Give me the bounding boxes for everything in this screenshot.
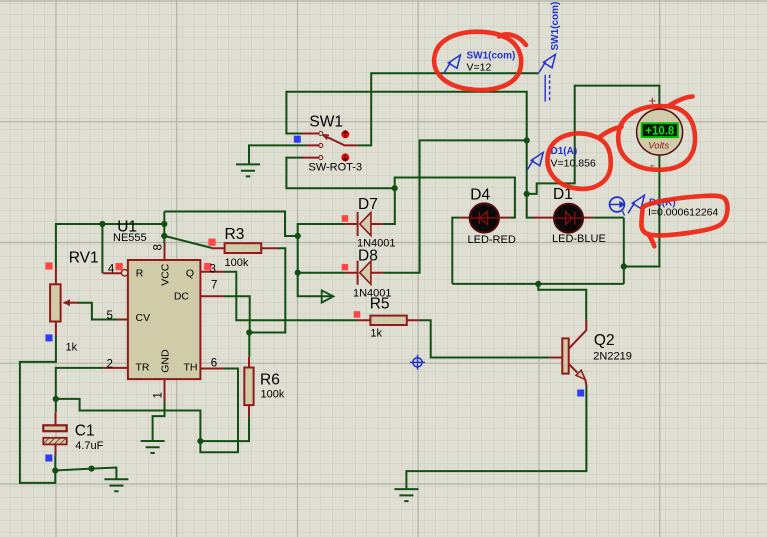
svg-text:2N2219: 2N2219 (593, 350, 632, 362)
svg-text:5: 5 (106, 310, 112, 322)
svg-text:R3: R3 (225, 226, 245, 243)
svg-text:V=12: V=12 (467, 62, 492, 74)
svg-text:D8: D8 (358, 248, 378, 265)
svg-text:3: 3 (210, 263, 216, 275)
svg-text:SW1(com): SW1(com) (467, 51, 516, 62)
svg-text:VCC: VCC (159, 263, 171, 286)
svg-text:100k: 100k (225, 257, 249, 269)
svg-text:4: 4 (108, 263, 115, 275)
svg-text:V=10.856: V=10.856 (551, 158, 596, 170)
svg-text:1N4001: 1N4001 (353, 288, 392, 300)
svg-text:100k: 100k (261, 388, 285, 400)
svg-text:RV1: RV1 (69, 249, 99, 266)
svg-text:Q: Q (186, 267, 194, 279)
svg-text:D7: D7 (358, 196, 378, 213)
svg-text:Q2: Q2 (594, 332, 615, 349)
svg-text:1k: 1k (370, 328, 382, 340)
svg-text:SW1: SW1 (309, 114, 343, 131)
svg-text:GND: GND (159, 349, 171, 373)
svg-text:CV: CV (136, 312, 151, 324)
svg-text:1: 1 (153, 392, 165, 398)
svg-text:TR: TR (136, 362, 150, 374)
svg-text:8: 8 (153, 244, 165, 250)
svg-text:D1(A): D1(A) (551, 146, 578, 157)
svg-text:1k: 1k (66, 342, 78, 354)
svg-text:NE555: NE555 (113, 232, 147, 244)
svg-text:+10.8: +10.8 (645, 126, 675, 138)
svg-text:2: 2 (106, 358, 112, 370)
svg-text:R6: R6 (260, 372, 280, 389)
svg-text:TH: TH (184, 362, 198, 374)
svg-text:LED-RED: LED-RED (468, 234, 516, 246)
svg-text:DC: DC (174, 291, 190, 303)
svg-text:D4: D4 (470, 186, 490, 203)
svg-text:R: R (136, 267, 144, 279)
svg-text:SW1(com): SW1(com) (550, 2, 561, 51)
svg-text:SW-ROT-3: SW-ROT-3 (309, 162, 363, 174)
svg-text:4.7uF: 4.7uF (75, 440, 103, 452)
svg-text:LED-BLUE: LED-BLUE (552, 233, 606, 245)
svg-text:7: 7 (211, 280, 217, 292)
svg-text:6: 6 (211, 357, 217, 369)
svg-text:C1: C1 (75, 423, 95, 440)
svg-text:Volts: Volts (648, 141, 669, 152)
svg-text:I=0.000612264: I=0.000612264 (648, 207, 719, 219)
